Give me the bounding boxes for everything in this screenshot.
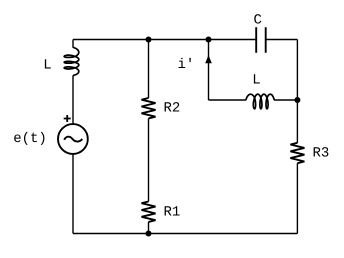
wire arrow branch vertical (208, 40, 210, 101)
wire right branch lower (296, 163, 298, 233)
current arrow head i' (205, 55, 212, 63)
wire coil to right junction (274, 99, 297, 101)
svg-text:L: L (252, 72, 260, 88)
inductor L (left, vertical coil) (64, 47, 79, 75)
wire left branch lower (72, 154, 74, 234)
wire top right segment (capacitor to corner) (267, 39, 298, 41)
svg-text:R1: R1 (164, 204, 181, 220)
wire middle branch upper (148, 40, 150, 99)
voltage source e(t) (58, 124, 88, 154)
capacitor C plates (256, 27, 266, 53)
svg-text:i': i' (178, 57, 195, 73)
resistor R1 (142, 202, 156, 222)
sine wave inside source (64, 137, 82, 142)
resistor R3 (290, 143, 304, 163)
wire middle branch lower (148, 222, 150, 234)
wire left branch upper (72, 40, 74, 48)
wire arrow branch horizontal (209, 99, 247, 101)
junction node (bottom, R1 branch) (146, 231, 152, 237)
svg-text:R2: R2 (164, 101, 181, 117)
svg-text:e(t): e(t) (13, 131, 47, 147)
plus polarity mark (64, 115, 71, 122)
inductor L (horizontal coil) (246, 94, 274, 109)
wire middle branch center (148, 118, 150, 201)
svg-text:R3: R3 (313, 146, 330, 162)
svg-text:L: L (43, 58, 51, 74)
wire left branch middle (72, 75, 74, 124)
svg-text:C: C (254, 13, 262, 29)
wire top left segment (73, 39, 255, 41)
wire bottom (73, 233, 297, 235)
junction node (right, coil) (294, 97, 300, 103)
junction node (top, R2 branch) (146, 37, 152, 43)
wire right branch upper (296, 40, 298, 143)
junction node (top, arrow branch) (206, 37, 212, 43)
resistor R2 (142, 98, 156, 118)
